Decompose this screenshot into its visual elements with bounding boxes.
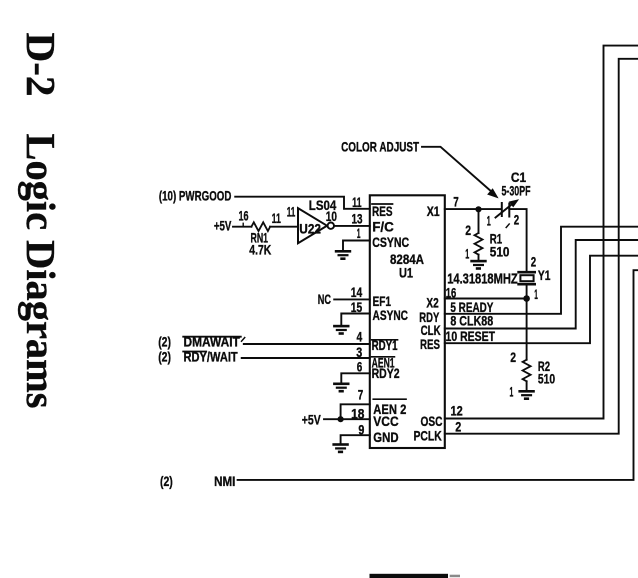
- svg-text:(2): (2): [160, 473, 173, 489]
- svg-text:11: 11: [272, 210, 281, 226]
- junction dot X2 node: [523, 295, 530, 302]
- label COLOR ADJUST with arrow: [341, 138, 497, 197]
- wire +5V to RN1: [233, 226, 251, 228]
- svg-text:(10) PWRGOOD: (10) PWRGOOD: [159, 187, 232, 203]
- wire ASYNC pin 15 to ground: [341, 314, 370, 325]
- svg-text:10 RESET: 10 RESET: [446, 328, 496, 344]
- pin tick 16: [242, 223, 244, 226]
- svg-text:Logic Diagrams: Logic Diagrams: [18, 134, 64, 409]
- svg-text:1: 1: [510, 383, 514, 399]
- svg-text:4: 4: [357, 329, 363, 345]
- svg-text:(2): (2): [158, 348, 171, 364]
- svg-text:2: 2: [510, 349, 516, 365]
- label (2) NMI: [160, 473, 235, 489]
- label (2) DMAWAIT (with overline): [158, 334, 245, 350]
- svg-text:OSC: OSC: [421, 413, 443, 429]
- wire READY pin 5: [445, 227, 638, 314]
- wire NMI: [238, 270, 638, 480]
- svg-text:CSYNC: CSYNC: [372, 234, 409, 250]
- ground (ASYNC): [333, 325, 349, 335]
- svg-text:4.7K: 4.7K: [249, 242, 271, 258]
- svg-text:U1: U1: [399, 265, 413, 281]
- ground (CSYNC): [335, 250, 351, 260]
- label (2) RDY/WAIT (with overline): [158, 348, 238, 364]
- svg-text:F/C: F/C: [372, 219, 394, 235]
- svg-text:2: 2: [455, 418, 461, 434]
- wire X2 node to R2: [526, 299, 528, 360]
- resistor R2 zigzag: [523, 360, 531, 382]
- svg-text:+5V: +5V: [214, 217, 232, 233]
- svg-text:10: 10: [326, 208, 337, 224]
- wire DMAWAIT to RDY1 pin 4: [244, 343, 370, 345]
- junction dot X1 node: [475, 206, 481, 212]
- svg-text:13: 13: [352, 210, 363, 226]
- wire GND pin 9 to ground: [341, 435, 370, 443]
- wire R1 bottom to ground: [478, 255, 480, 260]
- svg-text:ASYNC: ASYNC: [373, 307, 409, 323]
- wire U22 output to F/C pin 13: [334, 225, 370, 227]
- svg-text:12: 12: [451, 402, 463, 418]
- wire PWRGOOD to pin 11: [235, 197, 370, 209]
- pin label RDY1 (with overline): [372, 337, 398, 353]
- svg-text:X1: X1: [427, 203, 440, 219]
- svg-text:2: 2: [465, 222, 471, 238]
- rotor tick mark C1: [506, 224, 509, 228]
- svg-text:9: 9: [358, 422, 364, 438]
- wire R2 bottom to ground: [526, 381, 528, 390]
- inverter output bubble: [328, 223, 334, 229]
- svg-text:15: 15: [351, 299, 363, 315]
- wire C1 to crystal top: [509, 209, 526, 271]
- svg-text:RDY2: RDY2: [372, 365, 400, 381]
- wire RN1 to U22 input: [270, 226, 298, 228]
- junction dot +5V node: [338, 416, 344, 422]
- svg-text:5-30PF: 5-30PF: [502, 183, 531, 199]
- wire +5V to VCC pin 18: [324, 418, 370, 420]
- resistor R1 zigzag: [475, 233, 483, 255]
- wire RDY/WAIT to AEN1 pin 3: [242, 357, 370, 359]
- capacitor C1 (trimmer): [496, 200, 518, 218]
- resistor RN1 zigzag: [251, 222, 270, 231]
- svg-text:COLOR ADJUST: COLOR ADJUST: [341, 138, 419, 154]
- svg-text:NC: NC: [318, 291, 331, 307]
- ground (R1): [470, 260, 486, 270]
- pin label AEN1 (with overline): [372, 354, 395, 370]
- partial figure bar at page bottom: [370, 574, 449, 578]
- wire CLK88 pin 8: [445, 240, 638, 329]
- svg-text:1: 1: [534, 286, 538, 302]
- svg-text:11: 11: [287, 204, 296, 220]
- svg-text:PCLK: PCLK: [414, 428, 442, 444]
- crystal Y1: [519, 272, 535, 284]
- svg-text:VCC: VCC: [373, 413, 398, 429]
- ground (RDY2): [333, 383, 349, 393]
- wire Y1 bottom to X2 node: [526, 286, 528, 299]
- IC U1 8284A body: [370, 195, 445, 448]
- svg-text:U22: U22: [299, 220, 321, 236]
- svg-text:510: 510: [490, 243, 510, 259]
- svg-text:(2): (2): [158, 334, 171, 350]
- wire R1 top: [478, 209, 480, 233]
- pin label AEN 2 (with overline): [373, 399, 406, 417]
- ground (GND pin): [332, 443, 348, 453]
- wire AEN2 pin 7 from +5V node: [341, 404, 370, 419]
- wire OSC pin 12: [445, 46, 638, 419]
- svg-text:14: 14: [351, 284, 363, 300]
- svg-text:6: 6: [357, 358, 363, 374]
- svg-text:RES: RES: [420, 336, 440, 352]
- partial gray mark at page bottom: [450, 575, 460, 578]
- svg-text:Y1: Y1: [538, 267, 551, 283]
- svg-text:GND: GND: [373, 429, 398, 445]
- wire CSYNC pin 1 to ground: [343, 241, 370, 251]
- svg-text:510: 510: [538, 371, 555, 387]
- svg-text:1: 1: [487, 212, 491, 228]
- svg-text:1: 1: [357, 225, 361, 241]
- svg-text:D-2: D-2: [18, 33, 64, 97]
- svg-text:1: 1: [465, 245, 469, 261]
- svg-text:11: 11: [352, 194, 362, 210]
- wire RESET pin 10: [445, 256, 638, 344]
- wire X1 pin 7 to C1: [445, 208, 502, 210]
- wire NC to EF1 pin 14: [334, 298, 370, 300]
- wire X2 pin 16: [445, 298, 527, 300]
- inverter U22 triangle: [298, 208, 327, 243]
- svg-text:2: 2: [531, 254, 537, 270]
- wire PCLK pin 2: [445, 59, 638, 434]
- svg-text:7: 7: [358, 387, 364, 403]
- wire RDY2 pin 6 to ground: [341, 373, 370, 382]
- svg-text:16: 16: [239, 208, 249, 224]
- ground (R2): [518, 390, 534, 400]
- svg-text:2: 2: [514, 212, 520, 228]
- svg-text:8 CLK88: 8 CLK88: [450, 312, 493, 328]
- svg-text:NMI: NMI: [214, 473, 235, 489]
- svg-text:18: 18: [351, 405, 364, 421]
- pin label RES (with overline): [372, 203, 393, 219]
- svg-text:7: 7: [453, 194, 459, 210]
- svg-text:+5V: +5V: [302, 411, 321, 427]
- svg-text:14.31818MHZ: 14.31818MHZ: [447, 272, 518, 288]
- svg-text:RES: RES: [372, 203, 393, 219]
